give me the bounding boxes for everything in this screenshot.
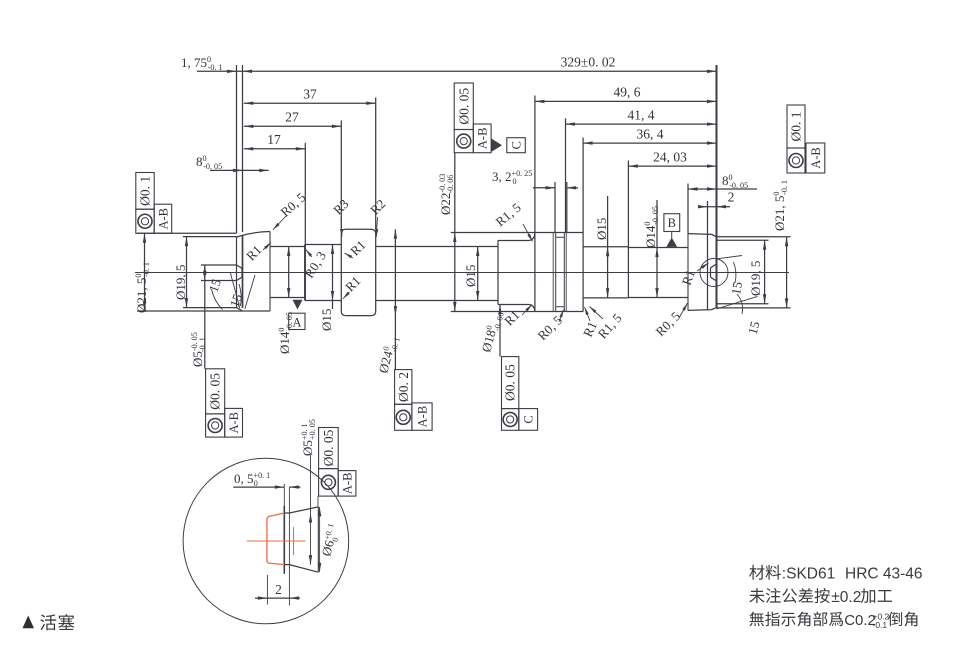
phi19.5 right extension top — [717, 239, 769, 241]
extension line x375 — [375, 98, 377, 230]
phi5 hole extension top — [201, 264, 237, 266]
phi14 right label — [643, 206, 660, 248]
svg-text:Ø0. 05: Ø0. 05 — [456, 88, 471, 125]
phi22 shoulder left face — [534, 233, 536, 312]
dimension 17 — [244, 148, 305, 150]
label R0.5 groove bottom — [535, 313, 566, 344]
phi24 label — [375, 334, 401, 375]
label R1.5 phi22 fillet top — [492, 200, 523, 230]
svg-text:Ø0. 05: Ø0. 05 — [208, 373, 223, 410]
phi18 dimension leader — [499, 305, 501, 357]
svg-text:A-B: A-B — [156, 208, 170, 230]
right center hole — [711, 264, 717, 268]
frame concentricity 0.1 A-B left top — [136, 173, 154, 210]
phi15 first dimension — [332, 245, 334, 310]
phi15 first section top edge — [305, 244, 341, 246]
extension line x688 — [687, 184, 689, 234]
svg-text:Ø5+0. 1+0. 05: Ø5+0. 1+0. 05 — [300, 419, 317, 456]
detail hole bottom face line — [283, 506, 285, 574]
phi21.5 left label — [134, 262, 151, 313]
svg-text:Ø15: Ø15 — [594, 218, 609, 240]
svg-text:C: C — [522, 415, 536, 423]
phi15 long dimension — [477, 247, 479, 301]
neck section bottom edge — [270, 297, 305, 299]
label 15 right upper — [728, 281, 745, 296]
right block end face — [716, 237, 718, 308]
svg-text:17: 17 — [267, 132, 281, 147]
detail ext 2 left — [266, 575, 268, 605]
frame concentricity 0.05 A-B bottom left — [206, 369, 225, 414]
label R2 collar top right — [367, 196, 388, 217]
svg-text:C0.2: C0.2 — [844, 612, 876, 629]
phi14 section bottom edge — [628, 297, 688, 299]
phi22 right face — [582, 233, 584, 312]
detail frame leader — [317, 496, 319, 507]
detail dimension 2 — [255, 597, 300, 599]
detail view circle — [183, 458, 349, 624]
label R0.3 neck right fillet — [301, 249, 329, 281]
phi19.5 right dimension line — [764, 240, 766, 303]
dimension 27 — [244, 125, 341, 127]
phi24 collar outline — [341, 229, 375, 315]
phi22 extension top — [451, 232, 535, 234]
label R0.5 right block fillet — [653, 309, 684, 340]
dimension 41.4 — [566, 123, 717, 125]
svg-text:Ø19, 5: Ø19, 5 — [173, 265, 188, 300]
phi21.5 left extension bottom — [137, 310, 243, 312]
datum A box — [289, 313, 305, 329]
extension line x707.5 — [707, 201, 709, 234]
detail phi6 dimension — [319, 507, 321, 572]
phi18 step face — [497, 241, 499, 305]
svg-text:Ø0. 1: Ø0. 1 — [138, 176, 153, 206]
phi14 right dimension — [656, 200, 658, 298]
right block top edge — [688, 234, 717, 237]
dimension 49.6 — [535, 100, 717, 102]
phi14 neck label — [277, 312, 294, 354]
svg-text:A-B: A-B — [809, 147, 823, 169]
extension line x341 — [340, 121, 342, 230]
right end chamfer angle line lower — [717, 296, 758, 309]
phi5 hole dimension line — [204, 265, 206, 369]
svg-text:2: 2 — [728, 190, 735, 205]
dimension 8 left — [210, 169, 269, 171]
svg-text:37: 37 — [303, 87, 317, 102]
datum A triangle — [293, 300, 303, 310]
main right extension line x716.5 (datum face) — [716, 65, 718, 237]
phi19.5 right extension bottom — [717, 303, 769, 305]
phi19.5 left extension bottom — [183, 307, 237, 309]
phi15 long section bottom edge — [376, 300, 498, 302]
phi15 third section bottom edge — [583, 297, 628, 299]
phi15 long section top edge — [376, 246, 498, 248]
label R1 collar bottom left — [342, 273, 363, 294]
phi15 third dimension — [607, 196, 609, 298]
svg-text:27: 27 — [285, 110, 299, 125]
phi21.5 left extension top — [137, 232, 237, 234]
dimension 37 — [244, 102, 376, 104]
svg-text:HRC 43-46: HRC 43-46 — [845, 566, 923, 583]
extension line x566.8 — [566, 182, 568, 233]
svg-text:329±0. 02: 329±0. 02 — [561, 55, 616, 70]
dimension 1.75 and 329 line — [197, 70, 717, 72]
label 15 left lower — [227, 292, 246, 309]
label R1.5 step bottom — [595, 311, 625, 342]
extension line x555 — [554, 182, 556, 233]
left center hole — [237, 265, 243, 268]
label R1 phi22 bottom right — [580, 319, 600, 339]
phi15 first section bottom edge — [305, 300, 341, 302]
frame concentricity 0.05 A-B detail — [319, 428, 339, 469]
phi18 section bottom edge — [498, 304, 529, 306]
detail orange centerline horizontal — [247, 540, 306, 542]
phi24 dimension line — [394, 229, 396, 369]
label 15 left upper — [206, 277, 225, 294]
phi19.5 right label — [748, 261, 763, 296]
svg-text:15: 15 — [728, 281, 745, 296]
svg-text:Ø15: Ø15 — [463, 265, 478, 287]
shaft left block crown top edge — [237, 232, 271, 238]
svg-text:A-B: A-B — [227, 412, 241, 434]
R1.5 fillet to phi22 shoulder — [529, 233, 535, 312]
detail end face line — [317, 507, 319, 572]
detail chamfer bottom — [289, 565, 318, 573]
svg-text:Ø0. 1: Ø0. 1 — [789, 112, 804, 142]
frame concentricity 0.05 A-B with datum C top middle — [454, 83, 473, 130]
neck section top edge — [270, 246, 305, 248]
svg-text:Ø15: Ø15 — [319, 309, 334, 331]
svg-text:A: A — [292, 316, 301, 330]
phi15 long label — [463, 265, 478, 287]
extension line left groove — [242, 65, 244, 232]
label R1 neck left fillet — [243, 242, 264, 263]
phi21.5 right label — [772, 180, 789, 231]
right block bottom edge — [688, 307, 717, 310]
frame concentricity 0.1 A-B right top — [787, 105, 805, 148]
right chamfer arcs — [734, 262, 736, 283]
phi21.5 left dimension line — [144, 233, 146, 311]
phi14 neck dimension — [288, 247, 290, 298]
svg-text:C: C — [509, 141, 523, 149]
phi22 extension bottom — [451, 311, 535, 313]
label R0.5 left crown — [278, 190, 309, 220]
phi14 section top edge — [628, 247, 688, 249]
detail land boundary line — [288, 487, 290, 605]
phi22 section bottom edge — [535, 311, 583, 313]
extension line x534.9 — [534, 96, 536, 233]
note line1 material SKD61 HRC 43-46 — [749, 565, 764, 580]
svg-text:2: 2 — [275, 582, 282, 597]
phi19.5 left extension top — [183, 236, 237, 238]
svg-text::SKD61: :SKD61 — [782, 566, 835, 583]
dimension 8 right — [688, 188, 757, 190]
datum B box — [664, 214, 680, 232]
detail orange hole taper profile — [267, 513, 284, 565]
svg-text:49, 6: 49, 6 — [614, 85, 641, 100]
phi15 first label — [319, 309, 334, 331]
frame concentricity 0.2 A-B bottom middle — [395, 370, 412, 405]
svg-text:A-B: A-B — [476, 128, 490, 150]
datum B triangle — [666, 238, 677, 247]
dimension 2 right — [698, 206, 730, 208]
detail circle B around right hole — [700, 259, 728, 287]
phi18 section top edge — [498, 240, 529, 242]
left chamfer angle arcs — [212, 289, 223, 310]
svg-text:A-B: A-B — [341, 473, 355, 495]
dimension 24.03 — [628, 165, 716, 167]
phi21.5 right extension top — [717, 236, 791, 238]
detail orange centerline vertical — [293, 527, 295, 555]
svg-text:Ø0. 05: Ø0. 05 — [503, 364, 518, 401]
label R1 phi22 bottom left — [501, 307, 522, 328]
svg-text:Ø22-0. 03-0. 06: Ø22-0. 03-0. 06 — [438, 174, 455, 215]
right end chamfer angle line upper — [717, 256, 742, 259]
detail chamfer top — [289, 507, 318, 513]
phi19.5 left label — [173, 265, 188, 300]
note line3 chamfer C0.2 — [749, 612, 764, 627]
svg-text:24, 03: 24, 03 — [653, 149, 687, 164]
neck right face — [304, 245, 306, 301]
shaft left end face — [236, 237, 238, 308]
svg-text:Ø19, 5: Ø19, 5 — [748, 261, 763, 296]
phi15 third label — [594, 218, 609, 240]
svg-text:±0.2: ±0.2 — [831, 589, 861, 606]
label R1 right hole — [679, 268, 698, 287]
detail phi5 land top — [284, 512, 289, 514]
svg-text:B: B — [668, 216, 676, 230]
detail phi5 dimension — [310, 455, 312, 565]
phi22 section top edge — [535, 232, 583, 234]
phi22 label — [438, 174, 455, 215]
phi22 dimension line with frame leader — [454, 153, 456, 312]
label R3 collar top left — [330, 196, 351, 217]
detail phi5 land bottom — [284, 564, 289, 566]
phi19.5 left dimension line — [186, 237, 188, 308]
extension line x305 — [304, 143, 306, 245]
right block left face — [687, 234, 689, 311]
extension line x583 — [582, 138, 584, 233]
svg-text:Ø0. 2: Ø0. 2 — [396, 372, 411, 402]
phi18 label — [478, 309, 505, 354]
note line2 untoleranced 0.2 — [749, 588, 764, 603]
ring groove 3.2 wide — [555, 233, 557, 312]
svg-text:Ø0. 05: Ø0. 05 — [321, 429, 336, 466]
left hole chamfer angle lines — [230, 273, 239, 308]
extension line x565.5 — [565, 118, 567, 232]
svg-text:36, 4: 36, 4 — [637, 126, 664, 141]
dimension 3.2 groove — [533, 187, 555, 189]
frame concentricity 0.05 C bottom right — [502, 357, 519, 409]
svg-text:A-B: A-B — [416, 406, 430, 428]
legend text huosai — [40, 614, 56, 630]
right block 2mm groove line — [707, 234, 709, 309]
extension line left end face — [236, 65, 238, 233]
phi21.5 right extension bottom — [717, 307, 791, 309]
shaft left end groove line — [242, 236, 244, 308]
shaft centerline — [135, 272, 789, 274]
extension line x628 — [627, 161, 629, 247]
shaft left block bottom edge — [243, 310, 271, 312]
detail dimension 0.5 — [233, 486, 284, 488]
phi5 hole extension bottom — [201, 280, 237, 282]
shaft left block right face — [269, 232, 271, 312]
dimension 36.4 — [583, 142, 716, 144]
label R1 collar left — [347, 237, 368, 258]
detail ext 0.5 left — [283, 484, 285, 506]
phi15 third section top edge — [583, 246, 628, 248]
phi21.5 right dimension line — [786, 237, 788, 308]
svg-text:41, 4: 41, 4 — [628, 107, 655, 122]
svg-text:-0.1: -0.1 — [873, 620, 888, 630]
legend triangle piston — [23, 616, 35, 629]
svg-text:Ø5-0. 05-0. 1: Ø5-0. 05-0. 1 — [190, 332, 207, 367]
phi14 step face — [627, 247, 629, 298]
phi5 left label — [190, 332, 207, 367]
label 15 right lower — [745, 320, 763, 336]
